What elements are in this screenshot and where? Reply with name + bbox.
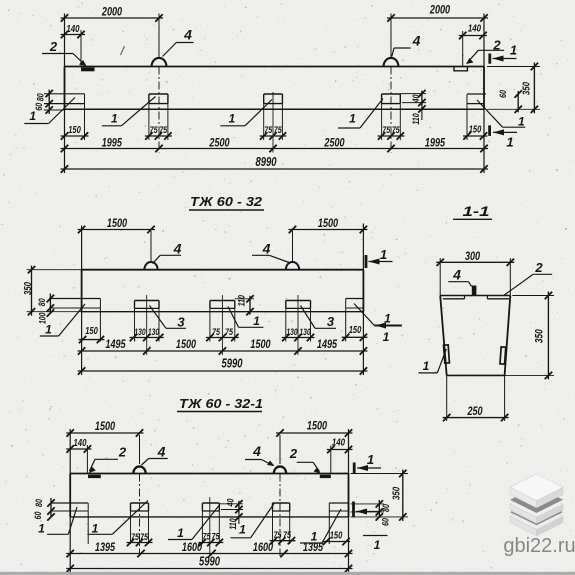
svg-text:4: 4 — [183, 27, 192, 43]
svg-text:1995: 1995 — [102, 136, 122, 150]
plate left (section) — [444, 345, 450, 363]
extension right end — [362, 224, 364, 376]
svg-text:1: 1 — [111, 112, 118, 126]
svg-text:1395: 1395 — [95, 540, 115, 554]
svg-text:1: 1 — [518, 115, 525, 129]
dim row 1995 2500 2500 1995 — [61, 148, 489, 150]
svg-text:ТЖ 60 - 32: ТЖ 60 - 32 — [190, 194, 263, 209]
section outline — [440, 295, 510, 297]
dim 80/100 left end (mid) — [49, 294, 51, 314]
dim row 1395 1600 1600 1395 (bot) — [66, 553, 352, 555]
section mark 1-1 top right — [488, 54, 491, 64]
svg-text:75: 75 — [212, 327, 221, 338]
dim row 130/130 75/75 150 (mid) — [130, 337, 164, 339]
svg-text:75: 75 — [150, 125, 159, 136]
dim 80/60 left side — [48, 90, 50, 114]
svg-text:gbi22.ru: gbi22.ru — [503, 535, 575, 557]
lifting loop 4 right (mid) — [286, 262, 299, 270]
svg-text:250: 250 — [467, 404, 483, 418]
dim 1500 top right (mid) — [289, 229, 368, 231]
svg-text:1600: 1600 — [182, 540, 202, 554]
plate right (section) — [500, 347, 506, 364]
section mark 1 top right (mid) — [365, 255, 368, 268]
section mark 1 bottom right (mid) — [374, 325, 401, 327]
beam end edge left (bot) — [69, 474, 71, 517]
dim 40/110 at hole 4 — [402, 102, 426, 104]
svg-text:60: 60 — [381, 517, 392, 526]
dim 140 left (bot) — [66, 448, 91, 450]
groove left (section) — [443, 298, 465, 300]
svg-text:80: 80 — [34, 498, 45, 507]
svg-text:1500: 1500 — [107, 216, 127, 230]
svg-text:3: 3 — [177, 315, 185, 330]
svg-text:1: 1 — [45, 323, 52, 337]
dim 350 right side — [487, 66, 540, 68]
svg-text:150: 150 — [349, 325, 362, 336]
center line loop left — [158, 14, 160, 59]
hole m1 (bot) — [131, 502, 149, 504]
lifting loop 4 right (bot) — [274, 466, 286, 473]
svg-text:4: 4 — [157, 444, 166, 460]
svg-text:2000: 2000 — [101, 5, 122, 19]
svg-text:80: 80 — [381, 503, 392, 512]
hole end left (mid) — [49, 298, 100, 300]
dim 250 (section) — [446, 375, 448, 421]
dim 80/60 left (bot) — [50, 498, 52, 516]
svg-text:150: 150 — [85, 326, 98, 337]
svg-text:80: 80 — [37, 298, 48, 307]
svg-text:130: 130 — [286, 327, 297, 337]
hole 3 — [264, 93, 283, 95]
svg-text:4: 4 — [262, 241, 271, 257]
extension right end (bot) — [348, 429, 350, 572]
svg-text:350: 350 — [391, 487, 403, 500]
loop stub (section) — [472, 286, 477, 296]
dim row 150 / 75-75 (top) — [61, 135, 89, 137]
svg-text:75: 75 — [274, 530, 283, 541]
hole 2 — [149, 93, 168, 95]
dim 110 hole B (mid) — [235, 298, 254, 300]
dim 80/60 right (bot) — [351, 503, 385, 505]
svg-text:1: 1 — [380, 247, 387, 262]
groove right (section) — [487, 298, 509, 300]
svg-text:1: 1 — [423, 359, 430, 373]
svg-text:40: 40 — [411, 94, 422, 103]
svg-text:1: 1 — [228, 112, 235, 126]
logo gbi22.ru stack — [510, 503, 563, 529]
notch left (140) — [81, 68, 95, 72]
hole end right — [467, 93, 486, 95]
hole m3 (bot) — [273, 502, 290, 504]
svg-text:75: 75 — [212, 532, 221, 543]
center line hole m2 (bot) — [209, 497, 211, 556]
svg-text:75: 75 — [264, 125, 273, 136]
svg-text:140: 140 — [73, 437, 86, 449]
dim 350 (section) — [512, 295, 554, 297]
svg-text:1: 1 — [38, 522, 45, 536]
svg-text:3: 3 — [327, 314, 335, 329]
hole 4 — [382, 93, 401, 95]
dim row 75/75 150 (bot) — [127, 542, 153, 544]
svg-text:2: 2 — [534, 260, 543, 275]
beam end edge left (mid) — [81, 270, 83, 312]
lifting loop 4 left (mid) — [144, 262, 157, 270]
svg-text:1: 1 — [510, 43, 517, 58]
svg-text:140: 140 — [66, 23, 79, 35]
svg-text:2: 2 — [289, 446, 298, 461]
beam end edge right — [483, 67, 485, 110]
svg-text:150: 150 — [469, 125, 482, 136]
hole end right (mid) — [346, 298, 364, 300]
svg-text:1: 1 — [349, 112, 356, 126]
dim 5990 (bot) — [66, 568, 352, 570]
svg-text:75: 75 — [274, 125, 283, 136]
svg-text:1495: 1495 — [105, 337, 125, 351]
beam ТЖ 60-32-1 view (5990) — [70, 473, 348, 475]
svg-text:75: 75 — [382, 125, 391, 136]
svg-text:ТЖ 60 - 32-1: ТЖ 60 - 32-1 — [179, 396, 263, 411]
svg-text:150: 150 — [330, 531, 343, 542]
dim 2000 right — [387, 17, 488, 19]
dim 1500 top left (bot) — [66, 432, 143, 434]
svg-text:110: 110 — [411, 113, 421, 124]
svg-text:130: 130 — [134, 327, 145, 337]
dim 5990 (mid) — [78, 370, 368, 372]
hole m2 (bot) — [202, 502, 219, 504]
svg-text:1: 1 — [177, 526, 184, 540]
dim row 1495 1500 1500 1495 (mid) — [78, 350, 368, 352]
lifting loop 4 right — [384, 58, 399, 67]
dim 2000 left — [61, 17, 164, 19]
section mark 1-1 bottom right — [488, 125, 491, 135]
svg-text:1500: 1500 — [95, 419, 115, 433]
svg-text:1395: 1395 — [303, 540, 323, 554]
svg-text:1600: 1600 — [253, 540, 273, 554]
svg-text:300: 300 — [465, 249, 480, 263]
svg-text:150: 150 — [68, 125, 81, 136]
svg-text:2500: 2500 — [324, 136, 345, 150]
svg-text:140: 140 — [332, 437, 345, 449]
center line loop right — [390, 14, 392, 59]
svg-text:80: 80 — [36, 93, 47, 102]
svg-text:2: 2 — [118, 445, 127, 460]
wire extension left end — [64, 14, 66, 174]
svg-text:4: 4 — [412, 33, 421, 49]
svg-text:1: 1 — [239, 523, 246, 537]
lifting loop 4 left — [152, 58, 167, 67]
beam end edge left — [64, 67, 66, 110]
svg-text:8990: 8990 — [256, 155, 277, 169]
svg-text:350: 350 — [22, 282, 34, 295]
svg-text:75: 75 — [203, 532, 212, 543]
svg-text:75: 75 — [140, 532, 149, 543]
hole end left — [44, 93, 85, 95]
dim 60 right side — [517, 91, 519, 112]
stray scratch — [121, 46, 125, 55]
svg-text:1500: 1500 — [318, 216, 338, 230]
dim 8990 — [61, 168, 489, 170]
center line hole 3 — [272, 92, 274, 153]
hole A (mid) — [135, 300, 160, 302]
notch left (bot) — [88, 475, 101, 478]
svg-text:1500: 1500 — [176, 337, 196, 351]
svg-text:60: 60 — [33, 511, 44, 520]
svg-text:1: 1 — [383, 330, 390, 344]
dim 140 right — [459, 35, 487, 37]
scan bottom edge — [0, 572, 575, 575]
svg-text:2000: 2000 — [429, 3, 450, 17]
svg-text:110: 110 — [228, 518, 238, 529]
extension left end (bot) — [69, 429, 71, 572]
svg-text:110: 110 — [237, 295, 247, 306]
svg-text:140: 140 — [468, 23, 481, 35]
svg-text:1: 1 — [506, 135, 513, 150]
beam end edge right (mid) — [362, 270, 364, 312]
svg-text:130: 130 — [299, 327, 310, 337]
dim 140 left — [61, 34, 86, 36]
section mark 1 bottom right (bot) — [352, 502, 355, 518]
svg-text:130: 130 — [148, 327, 159, 337]
svg-text:75: 75 — [392, 125, 401, 136]
svg-text:5990: 5990 — [222, 357, 243, 371]
svg-text:60: 60 — [34, 102, 45, 111]
svg-text:60: 60 — [498, 89, 509, 98]
dim 140 right (bot) — [327, 449, 353, 451]
beam end edge right (bot) — [348, 474, 350, 517]
hole B (mid) — [210, 300, 235, 302]
svg-text:1: 1 — [367, 452, 374, 467]
svg-text:75: 75 — [225, 327, 234, 338]
svg-text:1500: 1500 — [250, 337, 270, 351]
dim 40 hole m2 (bot) — [221, 509, 243, 511]
section mark 1 top right (bot) — [353, 463, 356, 475]
svg-text:1995: 1995 — [425, 136, 445, 150]
svg-text:350: 350 — [521, 82, 533, 95]
svg-text:1: 1 — [374, 538, 381, 552]
svg-text:2500: 2500 — [209, 136, 230, 150]
svg-text:4: 4 — [452, 267, 461, 283]
notch right (bot) — [320, 475, 331, 478]
extension left end — [81, 226, 83, 376]
dim 1500 top left (mid) — [78, 229, 155, 231]
beam ТЖ top view (8990) — [65, 67, 485, 110]
beam ТЖ 60-32 view (5990) — [82, 269, 364, 271]
svg-text:75: 75 — [131, 532, 140, 543]
svg-text:350: 350 — [534, 329, 546, 344]
svg-text:1: 1 — [92, 522, 99, 536]
dim 350 left (mid) — [27, 269, 82, 271]
svg-text:2: 2 — [49, 39, 58, 54]
hole end right (bot) — [329, 502, 348, 504]
svg-text:1-1: 1-1 — [463, 203, 490, 219]
svg-text:75: 75 — [159, 125, 168, 136]
svg-text:75: 75 — [283, 530, 292, 541]
notch right (140) — [454, 67, 467, 71]
svg-text:4: 4 — [252, 443, 261, 459]
svg-text:5990: 5990 — [199, 555, 220, 569]
svg-text:1: 1 — [253, 314, 260, 328]
svg-text:4: 4 — [173, 241, 182, 257]
hole C (mid) — [286, 300, 311, 302]
svg-text:40: 40 — [226, 498, 237, 507]
wire extension right end — [483, 14, 485, 174]
hole end left (bot) — [51, 502, 88, 504]
svg-text:1495: 1495 — [317, 337, 337, 351]
center lines holes (mid) — [146, 295, 148, 355]
svg-text:1500: 1500 — [307, 419, 327, 433]
dim 1500 top right (bot) — [276, 432, 353, 434]
lifting loop 4 left (bot) — [133, 466, 145, 473]
dim 300 (section) — [439, 258, 441, 296]
dim 350 right (bot) — [351, 473, 409, 475]
